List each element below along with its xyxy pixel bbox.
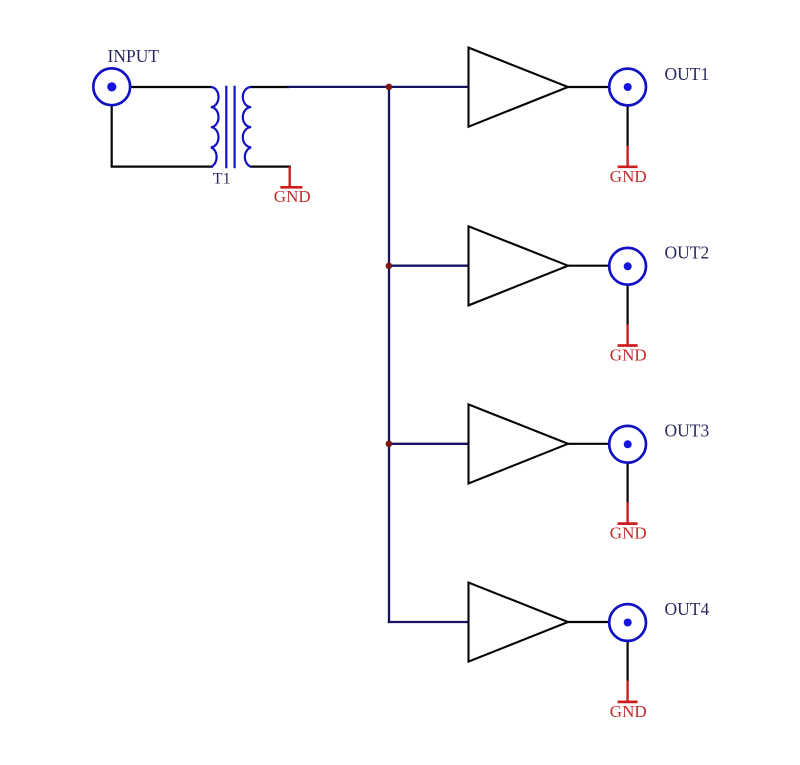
svg-text:OUT2: OUT2: [665, 243, 710, 263]
svg-text:GND: GND: [610, 524, 647, 543]
svg-text:INPUT: INPUT: [108, 46, 160, 66]
svg-text:OUT4: OUT4: [665, 599, 710, 619]
svg-text:OUT3: OUT3: [665, 421, 710, 441]
svg-text:GND: GND: [610, 346, 647, 365]
svg-text:OUT1: OUT1: [665, 64, 710, 84]
svg-text:GND: GND: [610, 167, 647, 186]
svg-text:GND: GND: [274, 187, 311, 206]
svg-text:GND: GND: [610, 702, 647, 721]
svg-text:T1: T1: [213, 171, 231, 188]
